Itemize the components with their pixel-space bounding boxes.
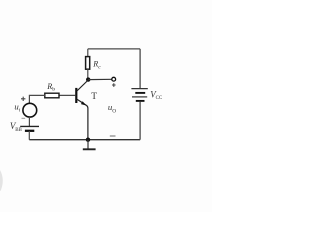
wire bottom rail: [29, 139, 140, 141]
wire base: [59, 94, 75, 96]
battery VBB plate long: [20, 125, 39, 127]
svg-text:BB: BB: [15, 128, 22, 133]
wire collector branch top: [87, 49, 89, 57]
resistor Rc: [86, 57, 90, 70]
ground bar: [83, 148, 96, 150]
node emitter junction: [86, 138, 90, 142]
svg-text:O: O: [112, 108, 116, 114]
battery VCC plate long 1: [131, 88, 147, 90]
ground stub: [87, 140, 89, 149]
battery VCC plate short 1: [135, 92, 145, 94]
wire battery VBB to bottom rail: [28, 131, 30, 140]
battery VCC plate long 2: [132, 96, 147, 98]
wire node to output terminal: [88, 78, 112, 80]
svg-text:i: i: [19, 108, 21, 114]
svg-text:CC: CC: [156, 96, 163, 101]
wire top rail: [88, 48, 140, 50]
label plus source: [21, 97, 25, 101]
battery VCC plate short 2: [136, 100, 145, 102]
emitter arrow: [81, 101, 86, 105]
svg-text:T: T: [91, 92, 97, 102]
wire Rc to collector node: [87, 69, 89, 79]
terminal output +: [112, 77, 116, 81]
source ui circle: [23, 103, 37, 117]
svg-text:b: b: [52, 86, 55, 92]
battery VBB plate short: [25, 130, 34, 132]
wire VCC branch top: [139, 49, 141, 89]
svg-text:c: c: [98, 64, 101, 70]
label minus source: [22, 117, 26, 119]
transistor emitter lead: [77, 99, 88, 139]
scan artifact left edge: [0, 170, 3, 191]
resistor Rb: [45, 93, 59, 98]
transistor T base bar: [75, 88, 77, 103]
node collector junction: [86, 77, 90, 81]
label minus output: [110, 135, 116, 137]
transistor collector lead: [77, 80, 88, 91]
label plus output: [112, 83, 116, 87]
wire VCC branch bottom: [139, 102, 141, 140]
wire source to Rb: [29, 95, 45, 103]
wire source to battery VBB: [28, 117, 30, 126]
